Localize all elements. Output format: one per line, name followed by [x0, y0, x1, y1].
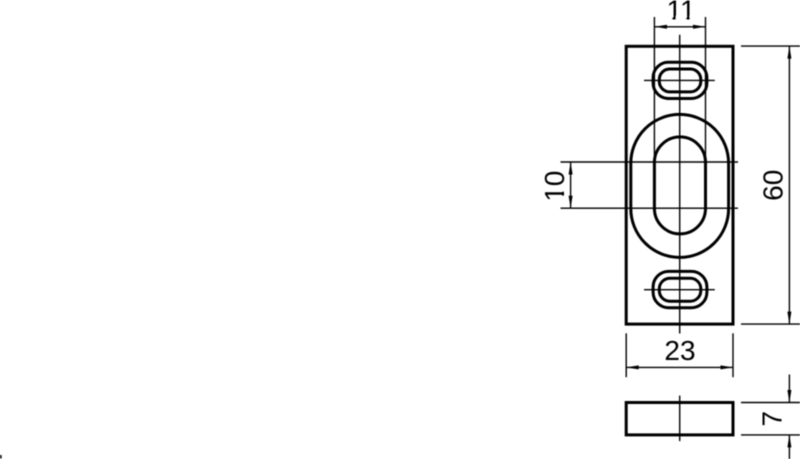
- svg-text:11: 11: [667, 0, 696, 25]
- side view rectangle (23x7): [626, 403, 733, 435]
- dim 23 dimension line: [626, 366, 733, 368]
- stray corner mark bottom-left: [0, 455, 2, 459]
- dim 60 bottom arrowhead: [787, 312, 791, 325]
- bottom screw hole inner contour: [659, 278, 701, 301]
- dim 11 left extension line: [653, 17, 655, 156]
- vertical centerline of plate: [679, 35, 681, 334]
- dim 11 right arrowhead: [693, 25, 706, 29]
- central slot obround (11 wide): [654, 137, 705, 234]
- dim 60 top arrowhead: [787, 46, 791, 59]
- dim 10 bottom extension line: [561, 207, 739, 209]
- dim 60 bottom extension line: [741, 323, 800, 325]
- top screw hole outer contour: [653, 62, 707, 98]
- bottom screw hole outer contour: [653, 271, 707, 307]
- plate outline (front view 23x60): [626, 46, 733, 324]
- dim 7 lower arrowhead (points up): [787, 435, 791, 448]
- dim 10 dimension line: [570, 162, 572, 208]
- dim 10 top extension line: [561, 161, 739, 163]
- dim 23 left arrowhead: [626, 365, 639, 369]
- side view vertical centerline: [679, 396, 681, 442]
- dim 23 left extension line: [625, 333, 627, 377]
- dim 10 top arrowhead: [569, 162, 573, 175]
- svg-text:7: 7: [756, 411, 787, 427]
- bottom hole horizontal centerline: [644, 289, 715, 291]
- svg-text:60: 60: [757, 170, 788, 201]
- dim 23 right extension line: [732, 333, 734, 377]
- dim 60 top extension line: [741, 45, 800, 47]
- central boss outer obround: [631, 114, 729, 257]
- dim 11 left arrowhead: [654, 25, 667, 29]
- dim 10 bottom arrowhead: [569, 196, 573, 209]
- dim 60 dimension line: [788, 46, 790, 324]
- dim 7 top extension line: [741, 402, 800, 404]
- top screw hole inner contour: [659, 69, 701, 92]
- dim text 11: [667, 0, 696, 25]
- dim 11 dimension line: [654, 26, 705, 28]
- dim text 10 (rotated): [539, 171, 570, 202]
- dim 7 bottom extension line: [741, 434, 800, 436]
- dim 11 right extension line: [705, 17, 707, 156]
- top hole horizontal centerline: [644, 79, 715, 81]
- dim 7 upper dimension line: [788, 375, 790, 403]
- dim 7 upper arrowhead (points down): [787, 390, 791, 403]
- svg-text:23: 23: [664, 335, 695, 366]
- svg-text:10: 10: [539, 171, 570, 202]
- dim 7 lower dimension line: [788, 435, 790, 459]
- dim 23 right arrowhead: [721, 365, 734, 369]
